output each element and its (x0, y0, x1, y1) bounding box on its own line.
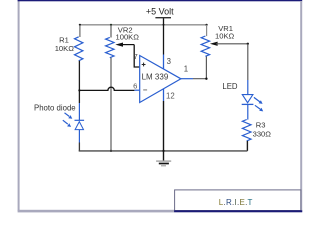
frame bottom border (18, 210, 303, 213)
wire +5V vertical down to comparator pin 3 (163, 18, 165, 54)
wire VR1 top stub (206, 25, 208, 36)
photodiode D2 (75, 103, 85, 143)
node junction VR1 / rail (206, 24, 208, 26)
photodiode light arrow 2 (63, 120, 71, 127)
wire pin 12 stub (blue) (163, 89, 165, 101)
svg-text:6: 6 (133, 82, 137, 91)
node junction VR2 / rail (110, 24, 112, 26)
svg-text:330Ω: 330Ω (253, 129, 272, 138)
svg-text:10KΩ: 10KΩ (55, 44, 75, 53)
wire top supply rail (80, 24, 207, 26)
power +5V terminal bar (155, 17, 171, 19)
node junction pin12 / ground rail (162, 150, 164, 152)
node junction output corner (205, 78, 207, 80)
node junction VR2 / ground rail (110, 150, 112, 152)
wire output pin 1 (blue stub) (181, 78, 193, 80)
wire R1 bottom to photodiode node (78, 61, 80, 103)
svg-text:100KΩ: 100KΩ (116, 32, 140, 41)
svg-text:7: 7 (134, 52, 138, 61)
ground symbol (156, 151, 171, 166)
svg-text:+5 Volt: +5 Volt (146, 6, 174, 16)
svg-text:R3: R3 (256, 121, 266, 130)
LED emission arrow 2 (255, 105, 263, 111)
wire VR2 bottom to ground rail (110, 58, 112, 151)
op-amp comparator U1 LM 339 (140, 56, 181, 103)
wire LED anode stub (blue) (247, 80, 249, 95)
node junction R1 / rail (79, 24, 81, 26)
resistor R1 (75, 37, 83, 61)
wire R1 top stub (79, 25, 81, 37)
wire pin 6 with hop over VR2 leg (80, 87, 134, 90)
svg-text:3: 3 (167, 57, 171, 66)
wire pin6 blue stub (134, 89, 139, 91)
svg-text:L.R.I.E.T: L.R.I.E.T (219, 198, 253, 207)
potentiometer VR1 (201, 36, 209, 56)
VR1 wiper arrow (210, 42, 248, 46)
frame top navy bar (18, 0, 303, 1)
svg-text:LED: LED (222, 82, 238, 91)
wire photodiode bottom to ground rail (78, 143, 80, 151)
svg-text:1: 1 (184, 65, 188, 74)
wire bottom ground rail (79, 149, 247, 152)
wire pin 3 stub (blue) (163, 55, 165, 70)
frame right border (300, 1, 302, 212)
VR2 wiper arrow (115, 43, 134, 47)
resistor R3 (242, 120, 251, 141)
photodiode light arrow 1 (65, 113, 73, 119)
wire VR2 top stub (110, 25, 112, 38)
LED D1 (242, 95, 254, 105)
wire pin 12 to ground rail (163, 101, 165, 151)
wire output to VR1 bottom (193, 56, 206, 78)
node junction wiper corner (247, 43, 249, 45)
wire LED cathode to R3 (blue) (247, 104, 249, 119)
title block box L.R.I.E.T (174, 190, 302, 212)
wire VR1 wiper down to LED (247, 44, 249, 80)
svg-text:12: 12 (166, 91, 175, 100)
node junction R1 / photodiode / pin6 wire (78, 89, 80, 91)
node junction +5V / rail (163, 24, 165, 26)
potentiometer VR2 (106, 37, 114, 57)
LED emission arrow 1 (254, 97, 263, 104)
svg-text:10KΩ: 10KΩ (215, 32, 235, 41)
svg-text:LM 339: LM 339 (142, 73, 169, 82)
svg-text:Photo diode: Photo diode (34, 103, 76, 112)
wire R3 bottom to ground rail (246, 141, 248, 151)
frame left border (18, 0, 20, 211)
wire VR2 wiper to comparator pin 7 (134, 45, 139, 67)
